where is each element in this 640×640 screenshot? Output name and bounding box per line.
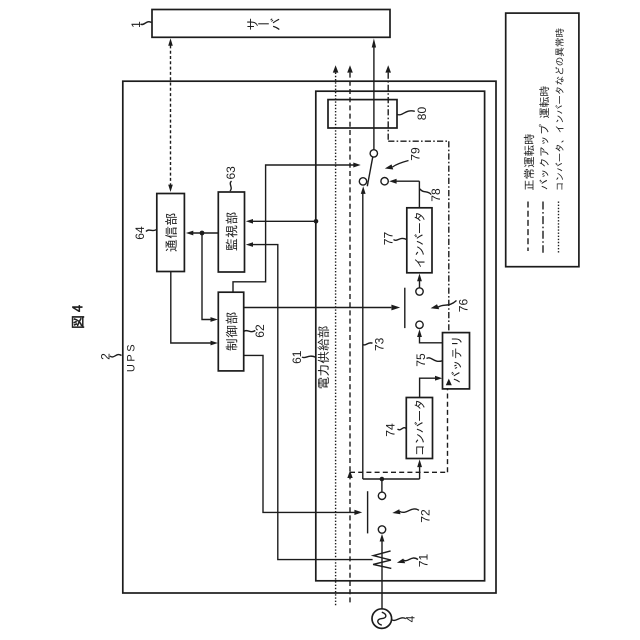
legend dashed sample	[527, 202, 529, 252]
text seigyobu (control unit)	[226, 312, 238, 350]
svg-text:78: 78	[429, 188, 443, 202]
text chouon of server label	[258, 23, 269, 24]
power supply unit box 61	[316, 91, 485, 581]
wire AC bus to converter bottom with up arrow	[417, 459, 422, 479]
switch 76 blade	[404, 288, 406, 328]
wire branch to control 62	[202, 233, 218, 322]
solid output line to server with arrow	[372, 38, 376, 149]
label 71 with pointer arrow	[397, 554, 431, 568]
svg-text:64: 64	[133, 226, 147, 240]
wire converter output to switch 76 bottom with up arrow	[417, 329, 442, 343]
label 72 with pointer arrow	[392, 509, 432, 523]
svg-text:76: 76	[457, 299, 471, 313]
control wire 62 to switch 72	[244, 355, 363, 515]
svg-text:74: 74	[384, 423, 398, 437]
control wire 62 to switch 76	[244, 305, 401, 311]
svg-text:79: 79	[408, 147, 422, 161]
label 73	[363, 337, 387, 351]
inverter box 77	[407, 208, 432, 273]
svg-text:63: 63	[224, 166, 238, 180]
label 1	[129, 21, 152, 28]
label 76 with pointer arrow	[431, 299, 471, 313]
label 77	[382, 232, 407, 246]
converter box 74	[406, 398, 432, 459]
label 62	[244, 324, 267, 338]
battery box 75	[443, 333, 470, 389]
text ba of server label	[270, 18, 279, 30]
text denryoku kyokyubu (power supply unit)	[318, 326, 330, 388]
legend dotted sample	[558, 202, 560, 253]
label 80	[397, 107, 429, 121]
bypass wire to switch 79 left contact with up arrow	[361, 186, 366, 479]
sense wire from breaker input to monitor 63	[246, 242, 373, 559]
wire monitor 63 to comm 64	[186, 231, 218, 236]
switch 76 top contact circle	[416, 288, 423, 295]
wire switch76 top to inverter bottom with up arrow	[417, 274, 422, 288]
dashed normal-operation flow line with top arrow	[347, 65, 447, 603]
label 74	[384, 423, 407, 437]
label 79 with pointer arrow	[385, 147, 423, 169]
svg-text:73: 73	[373, 337, 387, 351]
control unit box 62	[218, 292, 243, 371]
switch 72 top contact circle	[378, 492, 385, 499]
label 4	[392, 615, 418, 622]
text figure title Zu 4	[72, 305, 84, 327]
legend box	[506, 13, 579, 267]
switch 79 right contact circle	[381, 178, 388, 185]
text converter	[414, 401, 424, 454]
svg-text:77: 77	[382, 232, 396, 246]
text inverter	[414, 213, 424, 267]
svg-text:61: 61	[290, 350, 304, 364]
AC source 4	[372, 609, 392, 629]
output unit box 80	[328, 100, 397, 128]
label 64	[133, 226, 157, 240]
dashed communication link server to comm 64	[168, 38, 173, 192]
switch 72 blade	[367, 491, 369, 533]
wire comm 64 to control 62	[171, 272, 218, 346]
switch 72 bottom contact circle	[378, 526, 385, 533]
legend dash-dot sample	[542, 202, 544, 253]
label 61	[290, 350, 316, 364]
switch 79 common contact circle	[370, 150, 377, 157]
svg-text:71: 71	[417, 554, 431, 568]
control wire 62 to switch 79	[233, 163, 361, 293]
junction node	[380, 477, 385, 482]
dotted abnormal-time flow line with top arrow	[333, 65, 339, 606]
text sa of server label	[247, 19, 258, 30]
UPS box 2	[123, 81, 496, 593]
horizontal wire at junction	[363, 478, 420, 480]
text battery	[451, 339, 461, 383]
label 78	[420, 188, 443, 202]
svg-text:72: 72	[419, 509, 433, 523]
backup flow arrowhead inside battery	[446, 379, 452, 386]
server box 1	[152, 10, 390, 38]
breaker 71 zigzag	[373, 551, 391, 569]
wire breaker to AC source	[381, 568, 383, 608]
text tsushinbu (communication unit)	[165, 214, 177, 252]
sense wire from power-unit edge to monitor 63	[246, 219, 319, 224]
svg-text:75: 75	[414, 353, 428, 367]
wire junction to switch 72	[381, 479, 383, 492]
monitoring unit box 63	[218, 192, 244, 272]
svg-text:UPS: UPS	[126, 342, 138, 372]
legend text backup operation	[539, 86, 549, 189]
legend text normal operation	[524, 134, 534, 190]
dash-dot backup-operation flow line with top arrow	[385, 65, 451, 385]
branch wire to battery with right arrow	[420, 376, 443, 398]
legend text abnormal time	[555, 28, 564, 189]
switch 79 blade	[367, 157, 372, 186]
text kanshibu (monitoring unit)	[226, 212, 238, 250]
label 75	[414, 353, 442, 367]
switch 76 bottom contact circle	[416, 321, 423, 328]
wire breaker to switch 72 bottom with up arrow	[380, 534, 385, 551]
wire from inverter to switch 79 right contact	[389, 179, 419, 208]
label 2	[99, 353, 122, 360]
svg-text:80: 80	[415, 107, 429, 121]
label 63	[224, 166, 238, 191]
switch 79 left contact circle	[359, 178, 366, 185]
communication unit box 64	[157, 194, 185, 272]
